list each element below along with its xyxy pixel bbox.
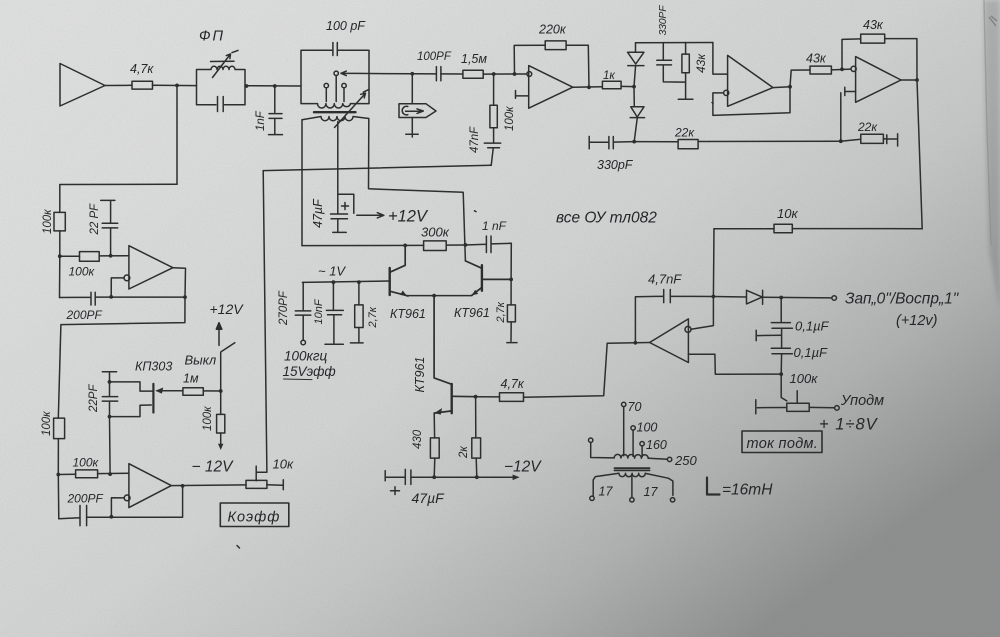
resistor 1,5M body xyxy=(463,70,483,78)
node 4,7nF right xyxy=(712,295,716,299)
diode D1 xyxy=(628,43,644,87)
svg-text:0,1µF: 0,1µF xyxy=(794,345,829,360)
plus mark of 47uF xyxy=(342,203,349,210)
svg-text:200PF: 200PF xyxy=(67,492,104,506)
svg-text:1к: 1к xyxy=(603,70,615,82)
capacitor 1nF osc xyxy=(465,236,511,279)
wire node down to pot xyxy=(781,374,787,401)
node 2k bottom xyxy=(475,475,479,479)
resistor 100k horizontal upper xyxy=(60,255,80,257)
paper speck 2 xyxy=(712,103,713,104)
rail arrowhead xyxy=(513,475,520,481)
node U6 input xyxy=(108,472,112,476)
node arrow wire junction xyxy=(410,72,414,76)
capacitor 47uF bottom with bar xyxy=(385,469,411,484)
capacitor 200pF lower xyxy=(59,486,183,526)
pot wiper tick xyxy=(796,391,798,403)
op-amp U1 xyxy=(529,66,573,109)
svg-text:15Vэфф: 15Vэфф xyxy=(283,364,336,379)
svg-text:100кгц: 100кгц xyxy=(284,349,328,364)
node emitter rail xyxy=(432,294,436,298)
wire buffer output to R 4,7k xyxy=(105,84,132,86)
node U2 output xyxy=(788,85,792,89)
capacitor 0,1uF second xyxy=(771,348,792,374)
svg-text:300к: 300к xyxy=(421,225,450,240)
node at x177 xyxy=(175,84,179,88)
node KP303 source xyxy=(108,415,112,419)
svg-text:43к: 43к xyxy=(806,52,827,66)
wire 300k line xyxy=(302,244,465,247)
svg-text:100к: 100к xyxy=(41,411,53,436)
capacitor 330pF lower xyxy=(589,136,634,148)
resistor 430 emitter xyxy=(433,413,435,438)
FP variable inductor arrow xyxy=(211,50,239,77)
U5 inverting circle xyxy=(124,275,130,281)
svg-text:47nF: 47nF xyxy=(469,126,481,153)
wire R4,7k to FP filter xyxy=(153,84,197,86)
svg-text:100PF: 100PF xyxy=(417,51,452,63)
Koeff box xyxy=(220,503,288,527)
U1 lower input with bar xyxy=(516,91,529,99)
svg-text:100к: 100к xyxy=(504,106,516,131)
svg-text:22к: 22к xyxy=(857,120,878,134)
capacitor 47uF electrolytic xyxy=(331,214,348,232)
transistor Q2 KT961 xyxy=(465,261,511,280)
plus mark 47uF bottom xyxy=(391,487,400,495)
wire secondary right to +12V rail to Q2 collector xyxy=(369,119,466,261)
svg-text:22 PF: 22 PF xyxy=(89,203,101,236)
node at FP output xyxy=(245,84,249,88)
wire vertical from node x177 down xyxy=(176,85,178,184)
U2 inverting circle xyxy=(724,90,729,95)
svg-text:1nF: 1nF xyxy=(255,110,267,131)
resistor 100k vertical xyxy=(493,74,495,105)
resistor 22k left body xyxy=(678,140,698,149)
wire 10k line xyxy=(714,228,922,230)
svg-text:200PF: 200PF xyxy=(66,308,103,322)
capacitor 330PF top branch xyxy=(657,43,686,83)
wire top line into U2 input xyxy=(713,43,728,75)
transformer primary winding xyxy=(318,104,351,108)
svg-text:2к: 2к xyxy=(458,446,470,459)
head core xyxy=(614,468,649,470)
resistor 1k body xyxy=(602,81,621,89)
svg-text:17: 17 xyxy=(599,485,614,499)
capacitor 0,1uF first xyxy=(771,298,792,348)
node 100k tap xyxy=(492,72,496,76)
svg-text:47µF: 47µF xyxy=(311,198,325,228)
node 1nF tap xyxy=(273,84,277,88)
pot right wire to terminal xyxy=(809,406,834,408)
svg-text:10к: 10к xyxy=(273,457,294,472)
node diode junction xyxy=(632,85,636,89)
transformer tap pins xyxy=(324,83,328,87)
Q3 emitter arrow xyxy=(434,408,442,415)
wire secondary left down to 300k line xyxy=(301,120,303,246)
transistor Q1 KT961 xyxy=(390,245,407,295)
wire base to 4,7k xyxy=(476,396,500,398)
U3 inverting circle xyxy=(851,66,856,71)
emitter rail Q1 Q2 xyxy=(407,295,472,297)
node 0,1uF chain top xyxy=(779,296,783,300)
U6 inverting circle xyxy=(124,495,130,501)
transformer variable core arrow xyxy=(335,90,369,128)
svg-text:10к: 10к xyxy=(777,206,798,221)
svg-text:100 pF: 100 pF xyxy=(326,19,366,33)
backdrop beyond right paper edge xyxy=(984,0,1000,310)
op-amp U5 xyxy=(129,246,173,289)
left rail lower xyxy=(57,439,60,519)
svg-text:330pF: 330pF xyxy=(597,158,634,172)
node 430 bottom xyxy=(432,475,436,479)
+12V arrow up xyxy=(216,323,222,346)
node U1 output xyxy=(587,85,591,89)
resistor 220k body xyxy=(545,41,566,50)
svg-text:160: 160 xyxy=(646,438,667,452)
svg-text:330PF: 330PF xyxy=(657,5,669,36)
head tap 100 xyxy=(631,426,635,430)
capacitor 200pF upper xyxy=(60,292,186,305)
svg-text:1м: 1м xyxy=(183,372,199,386)
stub bar above drain xyxy=(102,372,116,382)
svg-text:КП303: КП303 xyxy=(135,360,172,374)
wire U2 out up to 43k xyxy=(790,70,810,87)
node Q1 collector on 300k line xyxy=(403,244,407,248)
svg-text:250: 250 xyxy=(674,453,697,468)
pot left bar xyxy=(756,400,787,414)
wire 22k left to U3 input node xyxy=(698,140,841,142)
pot 10k right end bar xyxy=(267,480,283,490)
capacitor 100PF xyxy=(412,67,441,81)
KP303 drain lead xyxy=(110,382,153,391)
node Q2 base junction xyxy=(509,278,513,282)
node 22k line left xyxy=(632,140,636,144)
svg-text:2,7к: 2,7к xyxy=(495,301,507,323)
KP303 gate arrow xyxy=(155,388,163,394)
node U6 feedback tap xyxy=(181,484,185,488)
branch to +12V arrow xyxy=(338,194,384,218)
input buffer amplifier A1 xyxy=(60,64,105,107)
mid branch bar xyxy=(756,330,781,340)
svg-text:КТ961: КТ961 xyxy=(390,307,426,321)
svg-text:100к: 100к xyxy=(202,406,214,431)
FP filter box with top inductor xyxy=(197,66,246,104)
switch blade xyxy=(221,343,235,391)
svg-text:270PF: 270PF xyxy=(278,290,290,326)
transistor KP303 channel xyxy=(152,384,154,413)
U3 feedback loop xyxy=(842,39,917,80)
head bottom left lead xyxy=(593,473,619,496)
svg-text:70: 70 xyxy=(628,400,642,414)
node switch junction xyxy=(219,389,223,393)
svg-text:1,5м: 1,5м xyxy=(461,52,487,66)
wire secondary center tap down xyxy=(337,122,339,214)
resistor 100k vertical lower body xyxy=(54,418,65,439)
node U4 output feedback tap xyxy=(634,341,638,345)
down arrowhead xyxy=(218,444,223,450)
svg-text:0,1µF: 0,1µF xyxy=(795,319,830,334)
svg-text:100к: 100к xyxy=(42,209,54,234)
resistor 10k body xyxy=(774,224,792,232)
U4 output wire xyxy=(607,342,649,345)
svg-text:(+12v): (+12v) xyxy=(896,313,938,329)
resistor 4,7k body xyxy=(132,81,153,89)
svg-text:17: 17 xyxy=(644,485,659,499)
U2 feedback loop xyxy=(713,87,790,116)
resistor 100k vertical upper body xyxy=(54,212,65,231)
resistor 43k U3-input body xyxy=(810,66,831,74)
U4 inverting circle xyxy=(685,326,691,332)
resistor 100k to -12V xyxy=(220,391,222,414)
erase head C mark xyxy=(402,106,408,115)
svg-text:=16mH: =16mH xyxy=(722,482,773,499)
wire 10k line down to diode node xyxy=(712,229,715,297)
node 2,7k tap xyxy=(357,280,361,284)
node U5 output corner xyxy=(183,295,187,299)
top wire diode to U2 xyxy=(636,42,713,44)
U6 inverting wire xyxy=(111,498,124,517)
svg-text:22PF: 22PF xyxy=(88,384,100,413)
resistor 100k horizontal lower xyxy=(58,473,75,475)
resistor 2,7k right xyxy=(510,279,512,305)
svg-text:47µF: 47µF xyxy=(412,490,446,506)
resistor 43k shunt xyxy=(685,43,687,55)
FP capacitor plates xyxy=(218,97,224,112)
node Q3 base / 2k tap xyxy=(474,395,478,399)
erase head arrow xyxy=(406,109,424,114)
svg-text:+12V: +12V xyxy=(210,301,245,317)
left rail upper xyxy=(59,231,61,298)
svg-text:4,7к: 4,7к xyxy=(501,377,525,391)
U1 input circle xyxy=(527,72,532,77)
svg-text:100к: 100к xyxy=(69,265,96,279)
tok podm box xyxy=(742,431,822,453)
bottom -12V rail xyxy=(411,476,517,478)
KP303 source lead xyxy=(110,405,152,417)
transformer core bar xyxy=(314,111,356,113)
U1 output wire xyxy=(573,86,603,88)
22k right end bars xyxy=(883,134,897,146)
L=16mH note xyxy=(707,478,720,495)
head bottom center lead xyxy=(631,475,633,498)
op-amp U4 pointing left xyxy=(650,319,689,363)
svg-text:−12V: −12V xyxy=(504,459,542,476)
node 200pF lower tap xyxy=(110,515,114,519)
svg-text:100к: 100к xyxy=(73,456,100,470)
resistor 43k feedback body xyxy=(861,34,885,43)
wire 4,7k to U4 output corner xyxy=(524,343,608,397)
svg-text:4,7к: 4,7к xyxy=(130,62,154,76)
svg-text:КТ961: КТ961 xyxy=(413,357,427,393)
resistor 1M body xyxy=(183,388,203,396)
wire 43k to U3 xyxy=(831,68,851,71)
svg-text:КТ961: КТ961 xyxy=(454,306,490,320)
svg-text:2,7к: 2,7к xyxy=(367,306,379,328)
svg-text:43к: 43к xyxy=(863,18,884,32)
op-amp U2 xyxy=(728,55,773,106)
svg-text:+ 1÷8V: + 1÷8V xyxy=(819,416,879,434)
wire 1k to diode node xyxy=(621,85,634,87)
svg-text:Уподм: Уподм xyxy=(840,393,884,409)
head left terminal xyxy=(589,438,593,442)
resistor 22k right body xyxy=(861,134,884,143)
node 10nF tap xyxy=(332,280,336,284)
svg-text:220к: 220к xyxy=(538,23,567,37)
capacitor 22pF lower xyxy=(102,382,117,474)
KP303 gate wire xyxy=(157,390,183,392)
node U3 input xyxy=(840,67,844,71)
U3 output wire xyxy=(901,80,922,229)
Q1 emitter arrow xyxy=(400,291,407,296)
node KP303 drain xyxy=(108,380,112,384)
tap pin leads xyxy=(326,76,344,102)
U5 inverting wire xyxy=(111,278,124,297)
potentiometer 10k body xyxy=(246,480,267,488)
node U5 input xyxy=(109,254,113,258)
head tap 250 xyxy=(649,458,668,459)
Q2 emitter arrow xyxy=(472,290,479,296)
transformer secondary winding xyxy=(302,117,369,121)
svg-text:− 12V: − 12V xyxy=(192,459,235,476)
U1 feedback wire up and over xyxy=(514,45,589,87)
erase head ground xyxy=(406,118,418,138)
capacitor 10nF xyxy=(325,282,343,344)
capacitor 4,7nF feedback xyxy=(635,290,713,343)
capacitor 47nF xyxy=(484,128,500,166)
svg-text:~ 1V: ~ 1V xyxy=(318,264,346,279)
wire FP to transformer block xyxy=(245,85,301,87)
wire U3 plus input down to 22k line xyxy=(840,93,842,142)
node 200pF feedback tap xyxy=(109,295,113,299)
paper speck 4 xyxy=(407,295,408,298)
long wire bias line xyxy=(263,165,491,170)
wire diode node down to U4 inverting input xyxy=(691,297,713,330)
left column top link wire xyxy=(60,184,177,212)
svg-text:10nF: 10nF xyxy=(313,298,325,324)
svg-text:Коэфф: Коэфф xyxy=(228,510,281,526)
svg-text:ФП: ФП xyxy=(199,29,225,45)
erase head body xyxy=(399,104,436,118)
node 22k line right xyxy=(839,139,843,143)
svg-text:100к: 100к xyxy=(790,371,819,386)
node rail lower xyxy=(56,473,60,477)
diode D2 xyxy=(630,87,644,142)
long vertical bias wire xyxy=(256,171,267,481)
svg-text:ток подм.: ток подм. xyxy=(747,436,819,452)
op-amp U6 xyxy=(129,464,171,508)
resistor 300k body xyxy=(424,241,447,251)
head bottom right lead xyxy=(645,473,673,495)
resistor 2,7k left xyxy=(358,282,360,305)
resistor 2k xyxy=(475,397,477,438)
capacitor 270PF xyxy=(295,282,311,340)
oscillator transformer box xyxy=(301,50,369,103)
node Q2 collector junction xyxy=(464,243,468,247)
svg-text:1 nF: 1 nF xyxy=(482,219,507,233)
diode D3 xyxy=(713,290,762,304)
capacitor 100pF on box top xyxy=(333,43,337,56)
U3 plus input bar xyxy=(845,87,856,95)
paper speck 1 xyxy=(237,546,240,549)
node rail 100k xyxy=(58,254,62,258)
U5 output and feedback loop xyxy=(58,268,185,418)
svg-text:+12V: +12V xyxy=(388,208,429,226)
svg-text:4,7nF: 4,7nF xyxy=(648,272,682,287)
wire 1M to switch node xyxy=(203,390,220,392)
head winding top xyxy=(614,454,648,458)
wire D3 to record/play terminal xyxy=(763,296,832,299)
transistor Q3 KT961 xyxy=(452,395,476,397)
svg-text:100: 100 xyxy=(637,421,658,435)
op-amp U3 xyxy=(856,57,901,103)
arrow selecting middle tap xyxy=(341,71,412,76)
node U3 output xyxy=(915,78,919,82)
head tap 160 xyxy=(640,442,644,446)
wire emitter rail down to Q3 collector xyxy=(434,296,452,385)
270PF input terminal xyxy=(301,340,306,345)
svg-text:Зап„0"/Воспр„1": Зап„0"/Воспр„1" xyxy=(845,291,960,308)
capacitor 22pF stub xyxy=(101,200,118,255)
paper speck 3 xyxy=(475,210,477,213)
resistor 4,7k base body xyxy=(500,393,524,402)
node 100k pot top xyxy=(779,372,783,376)
svg-text:все ОУ тл082: все ОУ тл082 xyxy=(556,210,657,227)
Q1 base line xyxy=(302,281,389,282)
U4 plus input wire to 100k node xyxy=(688,354,781,374)
svg-text:430: 430 xyxy=(412,429,424,449)
wire into 22k left xyxy=(634,141,678,143)
svg-text:43к: 43к xyxy=(694,53,708,73)
svg-text:22к: 22к xyxy=(674,126,695,140)
head tap 70 xyxy=(622,402,626,406)
svg-text:Выкл: Выкл xyxy=(185,353,217,368)
head winding bottom xyxy=(619,473,645,477)
wires around 1,5M xyxy=(441,73,527,75)
node feedback tap xyxy=(513,72,517,76)
erase head lead xyxy=(411,74,413,104)
wire into 22k right xyxy=(841,139,861,141)
capacitor 1nF to ground stub xyxy=(269,86,283,135)
bias voltage terminal circle xyxy=(835,406,840,411)
record/play terminal circle xyxy=(832,296,837,301)
U6 output wire xyxy=(171,484,246,487)
U2 output wire xyxy=(773,86,790,89)
resistor 100k bias body xyxy=(787,403,809,411)
